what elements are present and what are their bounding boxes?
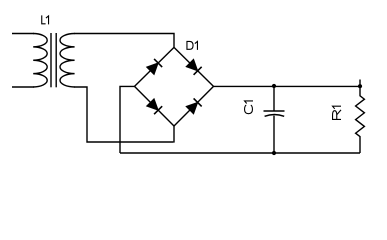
node junction dot R1 top (358, 84, 362, 88)
diode D1d bottom-right (points to right corner) (186, 98, 201, 113)
node junction dot C1 top (272, 84, 276, 88)
wire R1 top stub (above rail) (359, 80, 361, 87)
bridge D1 label (186, 41, 197, 50)
capacitor C1 bottom stem (273, 116, 275, 153)
capacitor C1 top plate (264, 110, 285, 112)
capacitor C1 label (rotated) (245, 101, 253, 114)
bridge edge bottom-right (174, 86, 214, 126)
wire bridge bottom stub (173, 126, 175, 143)
bridge edge top-right (174, 47, 214, 86)
wire primary bottom lead (12, 86, 34, 88)
resistor R1 label (rotated) (332, 106, 341, 120)
resistor R1 body (zigzag) (356, 86, 365, 153)
transformer core line right (55, 33, 57, 87)
wire top rail (bridge right corner to R1) (214, 85, 361, 87)
transformer L1 primary winding (33, 34, 47, 88)
wire secondary top lead to bridge top (74, 34, 174, 48)
bridge edge top-left (135, 47, 175, 86)
bridge edge bottom-left (135, 86, 175, 126)
wire bridge left corner to bottom rail (120, 86, 135, 153)
transformer core line left (50, 33, 52, 87)
diode D1a top-left (points to top corner) (147, 59, 162, 74)
diode D1c bottom-left (points to bottom corner) (147, 99, 162, 114)
transformer L1 secondary winding (60, 34, 75, 88)
wire secondary bottom lead (74, 87, 173, 142)
capacitor C1 bottom plate (curved) (265, 115, 285, 117)
capacitor C1 top stem (273, 86, 275, 111)
diode D1b top-right (points to right corner) (186, 59, 201, 74)
node junction dot C1 bottom (272, 151, 276, 155)
wire bottom rail (120, 152, 360, 154)
transformer L1 label (42, 15, 49, 24)
wire primary top lead (12, 33, 34, 35)
